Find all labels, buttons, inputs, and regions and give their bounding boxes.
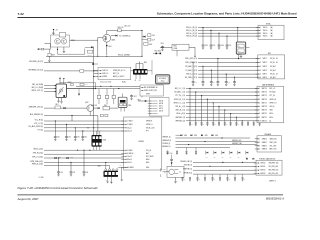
svg-text:August 24, 2007: August 24, 2007 <box>18 197 39 201</box>
svg-text:6816532H01-A: 6816532H01-A <box>266 197 284 201</box>
svg-text:Figure 7-28. HUD4025A Control: Figure 7-28. HUD4025A Control-Head Conne… <box>18 186 99 190</box>
svg-text:7-32: 7-32 <box>18 12 24 16</box>
svg-text:Schematics, Component Location: Schematics, Component Location Diagrams,… <box>157 12 297 16</box>
svg-text:SPKR/MIC_HI (C2): SPKR/MIC_HI (C2) <box>28 70 43 72</box>
svg-text:HU801: HU801 <box>139 141 145 143</box>
svg-text:MIC/GND_IN (C1): MIC/GND_IN (C1) <box>29 61 43 63</box>
